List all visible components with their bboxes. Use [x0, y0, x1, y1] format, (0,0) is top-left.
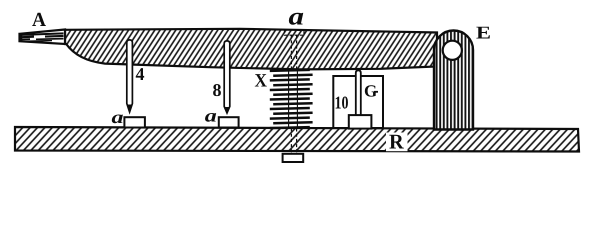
pin 4 [127, 40, 133, 112]
contact block a (right) [219, 117, 239, 127]
svg-text:a: a [289, 4, 305, 31]
post E (column with eye) [434, 31, 473, 130]
label R (halo + letter) [386, 133, 408, 152]
svg-text:X: X [255, 71, 268, 92]
screw a: hidden head (dashed) [285, 30, 305, 153]
svg-text:a: a [205, 105, 217, 125]
gauge box G [333, 76, 383, 128]
svg-text:4: 4 [136, 64, 145, 84]
contact block a (left) [124, 117, 144, 127]
tongue A (left tip of beam) [20, 30, 66, 45]
eye hole [443, 41, 462, 60]
gauge pedestal [349, 115, 372, 129]
gauge rod [356, 70, 361, 116]
svg-text:8: 8 [213, 80, 222, 100]
pin 8 [224, 41, 230, 113]
svg-text:a: a [112, 107, 124, 127]
svg-text:10: 10 [335, 92, 349, 112]
svg-text:E: E [476, 23, 491, 43]
nut below rail (screw a end) [283, 154, 304, 162]
base rail R (bottom bar) [15, 127, 579, 152]
spring X [270, 70, 313, 128]
beam (top bar) [65, 29, 437, 70]
svg-text:A: A [32, 9, 47, 31]
svg-text:R: R [389, 130, 405, 154]
